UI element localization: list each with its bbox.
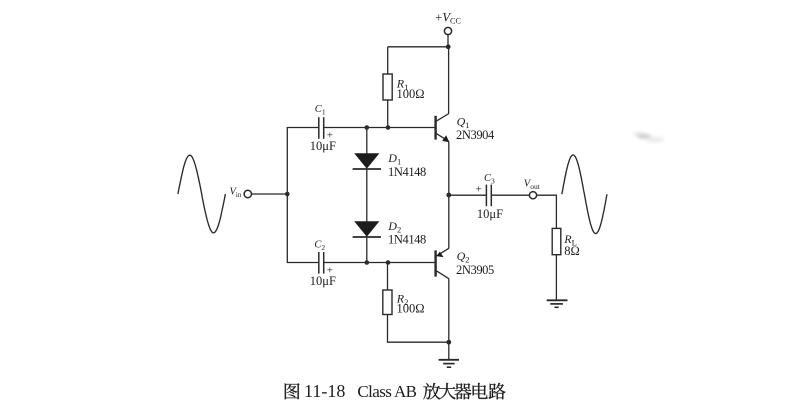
transistor Q1 <box>436 114 450 143</box>
wire R1 bottom to top rail <box>387 100 389 128</box>
junction R1 bottom node <box>386 125 391 130</box>
terminal Vout <box>529 192 536 199</box>
wire D1 anode <box>366 127 368 155</box>
wire to main ground <box>448 342 450 360</box>
wire Q1 collector vertical <box>448 47 450 114</box>
svg-text:2N3904: 2N3904 <box>456 128 495 142</box>
svg-text:+: + <box>476 183 482 195</box>
output sine waveform <box>562 155 607 234</box>
junction ground node <box>446 340 451 345</box>
wire output node to C3 <box>449 194 486 196</box>
resistor R2 <box>383 290 392 315</box>
wire top rail C1 to D1 node <box>324 127 367 129</box>
wire bottom rail C2 to D2 node <box>324 262 367 264</box>
caption figure number 11-18 <box>285 381 346 401</box>
wire R2 to ground node <box>387 341 449 343</box>
wire VCC horizontal rail <box>388 46 449 48</box>
resistor RL <box>552 228 561 254</box>
svg-text:Class AB: Class AB <box>357 382 416 401</box>
ground main <box>439 360 459 367</box>
junction output node <box>446 193 451 198</box>
scan smudge artifact (decorative) <box>633 132 664 143</box>
wire bottom rail R2 node to Q2 base <box>388 262 436 264</box>
capacitor C2 plates <box>319 252 324 274</box>
wire VCC stem <box>447 35 449 47</box>
junction R2 top node <box>386 260 391 265</box>
diode D2 <box>353 221 381 237</box>
wire Q2 emitter vertical <box>448 195 450 248</box>
junction top of diode chain <box>365 125 370 130</box>
svg-text:10μF: 10μF <box>310 274 336 288</box>
svg-text:100Ω: 100Ω <box>397 301 425 315</box>
wire D2 cathode to bottom rail <box>366 237 368 263</box>
wire Vin to input bus <box>252 193 288 195</box>
wire left bus vertical <box>286 128 288 263</box>
svg-text:100Ω: 100Ω <box>397 87 425 101</box>
wire D1 cathode to D2 anode <box>366 169 368 222</box>
resistor R1 <box>383 74 392 100</box>
wire RL branch vertical <box>555 195 557 229</box>
terminal Vin <box>244 190 251 197</box>
wire R2 bottom <box>387 315 389 343</box>
wire top rail R1 node to Q1 base <box>388 127 436 129</box>
terminal +VCC <box>444 27 451 34</box>
junction input node <box>285 192 290 197</box>
wire Q1 emitter to output node <box>448 142 450 195</box>
svg-text:1N4148: 1N4148 <box>388 233 426 247</box>
diode D1 <box>353 153 381 169</box>
caption title Class AB amplifier circuit <box>357 382 505 401</box>
wire Q2 collector vertical <box>448 279 450 342</box>
transistor Q2 <box>436 248 449 278</box>
wire top rail D1 node to R1 node <box>367 127 388 129</box>
wire Vout to RL branch <box>537 194 557 196</box>
ground output <box>547 300 568 307</box>
wire bottom rail bus to C2 <box>287 262 319 264</box>
wire bottom rail D2 node to R2 node <box>367 262 388 264</box>
svg-text:8Ω: 8Ω <box>564 244 580 258</box>
capacitor C1 plates <box>319 117 324 139</box>
svg-text:10μF: 10μF <box>310 139 336 153</box>
svg-text:1N4148: 1N4148 <box>388 165 426 179</box>
capacitor C3 plates <box>486 185 491 207</box>
input sine waveform <box>178 155 226 233</box>
junction VCC node <box>446 44 451 49</box>
wire R1 top to VCC rail <box>387 47 389 74</box>
wire R2 top from bottom rail <box>387 263 389 291</box>
junction bottom of diode chain <box>365 260 370 265</box>
svg-text:2N3905: 2N3905 <box>456 263 494 277</box>
wire C3 to Vout terminal <box>491 194 529 196</box>
wire top rail bus to C1 <box>287 127 319 129</box>
svg-text:10μF: 10μF <box>477 207 503 221</box>
wire RL to ground <box>555 255 557 301</box>
svg-text:11-18: 11-18 <box>304 381 345 401</box>
